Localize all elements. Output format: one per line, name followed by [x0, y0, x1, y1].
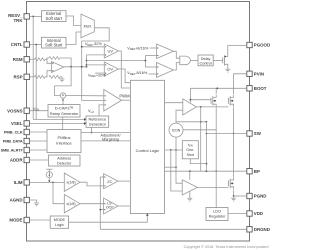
wire ILIM to lower amp: [53, 182, 64, 203]
wire PGOOD pin net: [228, 46, 247, 53]
wire VSEL into reference (arrow): [29, 122, 84, 124]
svg-text:Control: Control: [199, 61, 211, 65]
wire OV+: [87, 64, 105, 66]
wire CNTL to internal soft start: [29, 44, 41, 46]
svg-text:DRGND: DRGND: [254, 227, 270, 232]
wire int ss to mux: [66, 32, 81, 45]
svg-text:PVIN: PVIN: [254, 71, 264, 76]
wire ref gen bottom to margining bus: [91, 127, 93, 132]
mode logic box: [50, 216, 68, 228]
svg-text:x(1/8): x(1/8): [66, 181, 75, 185]
pin PMB_CLK: [24, 129, 29, 134]
wire gate boot fet from control: [190, 99, 211, 101]
wire VREF-8/16%: [149, 73, 157, 75]
wire ADDR: [29, 159, 48, 161]
wire and to delay: [190, 59, 198, 61]
delay control box: [198, 55, 213, 66]
wire LS fet drain: [233, 134, 235, 177]
wire summing to ramp box: [62, 98, 64, 104]
wire CNTL down: [35, 45, 37, 120]
wire PGND net: [234, 195, 247, 197]
svg-text:MODE: MODE: [54, 218, 66, 222]
external soft start box: [42, 11, 67, 22]
wire LDO to VDD: [228, 213, 247, 215]
wire fb to window comp inputs: [144, 56, 146, 68]
wire UV out to control logic: [119, 51, 131, 88]
wire lower amp out to OCP: [80, 203, 104, 205]
pin VOSNS: [24, 108, 29, 113]
pin BP: [247, 169, 252, 174]
PMBus interface box: [47, 130, 81, 153]
wire xcon down to ton wire: [176, 137, 182, 183]
resistor RSM input: [29, 58, 34, 60]
wire ramp box to PMBus: [62, 117, 64, 130]
ls driver ground: [189, 191, 191, 196]
comparator PG upper: [157, 44, 174, 59]
svg-text:Shot: Shot: [187, 153, 194, 157]
svg-text:SW: SW: [254, 131, 262, 136]
svg-text:Detector: Detector: [57, 161, 72, 165]
wire margining bus upper: [81, 132, 130, 134]
mux M1: [81, 14, 94, 38]
ground pgnd: [233, 196, 235, 198]
ton one-shot box: [182, 141, 198, 159]
wire ls driver input: [165, 166, 177, 168]
svg-text:ZC: ZC: [107, 180, 112, 184]
comparator UV: [104, 44, 118, 58]
svg-text:ILIM: ILIM: [14, 180, 23, 185]
svg-text:Interface: Interface: [56, 141, 72, 146]
svg-text:One-: One-: [186, 148, 195, 152]
svg-text:BOOT: BOOT: [254, 86, 267, 91]
LDO regulator box: [206, 208, 228, 221]
wire upper amp out to ZC: [80, 182, 104, 186]
comparator ZC: [104, 174, 118, 189]
svg-text:SMB_ALRT#: SMB_ALRT#: [1, 149, 24, 153]
wire RESV_TRK to external soft start: [29, 15, 41, 17]
D-CAP3 ramp generator box: [48, 105, 80, 117]
resistor RSP input: [29, 76, 34, 78]
and gate G1: [180, 56, 191, 65]
hs driver: [183, 99, 197, 115]
svg-text:TRK: TRK: [13, 18, 23, 23]
wire fb bus to window comparators: [87, 60, 146, 62]
ground pgood fet: [227, 67, 229, 69]
XCON circle: [169, 123, 183, 137]
wire ZC out: [118, 180, 130, 182]
svg-text:PMB_DATA: PMB_DATA: [3, 140, 23, 144]
op-amp U1 diff amp: [52, 62, 64, 73]
pin ADDR: [24, 157, 29, 162]
pin CNTL: [24, 42, 29, 47]
pin MODE: [24, 217, 29, 222]
svg-text:Copyright © 2016, Texas Instru: Copyright © 2016, Texas Instruments Inco…: [184, 245, 269, 249]
transistor PGOOD pulldown: [222, 57, 224, 63]
wire window comps to and gate: [174, 51, 180, 58]
wire BP net: [165, 170, 247, 172]
wire mode logic to control logic (arrow): [69, 216, 148, 223]
svg-text:tON: tON: [188, 143, 193, 148]
wire PMB_CLK: [29, 131, 47, 133]
wire OV out to control logic: [119, 69, 131, 83]
svg-text:PWM: PWM: [119, 93, 130, 98]
wire MODE pin: [29, 219, 50, 221]
svg-text:Logic: Logic: [55, 223, 64, 227]
svg-text:CNTL: CNTL: [11, 42, 23, 47]
wire ls fet source to PGND: [233, 190, 235, 196]
svg-text:OCP: OCP: [106, 206, 114, 210]
svg-text:Delay: Delay: [201, 57, 211, 61]
svg-text:PGND: PGND: [254, 194, 267, 199]
pin BOOT: [247, 86, 252, 91]
address detector box: [49, 155, 81, 166]
svg-text:UV: UV: [108, 49, 114, 54]
pin RSP: [24, 74, 29, 79]
wire VOSNS to ramp: [29, 110, 48, 112]
comparator OV: [104, 62, 118, 76]
wire hs driver out to gate: [196, 106, 228, 108]
svg-text:Margining: Margining: [102, 137, 119, 141]
control logic box: [130, 80, 164, 213]
svg-text:RSP: RSP: [13, 74, 22, 79]
current source I1: [46, 168, 52, 170]
wire VREF-32% to UV: [82, 46, 105, 48]
internal soft start box: [42, 37, 67, 48]
wire diff amp output: [64, 66, 87, 68]
svg-text:RSM: RSM: [13, 57, 23, 62]
ground ref resistor: [60, 76, 62, 78]
svg-text:AGND: AGND: [10, 198, 23, 203]
reference generator box: [86, 116, 109, 127]
resistor feedback top: [49, 57, 60, 60]
svg-text:PMBus: PMBus: [58, 135, 71, 140]
chip outline: [27, 2, 250, 242]
wire hs driver input: [165, 102, 183, 104]
wire SMB_ALRT: [29, 149, 47, 151]
svg-text:Control Logic: Control Logic: [136, 148, 160, 153]
pin RSM: [24, 57, 29, 62]
wire xcon right to boot source: [183, 129, 216, 131]
wire ext ss to mux: [66, 16, 81, 26]
wire summing to PWM+: [66, 95, 104, 97]
svg-text:Reference: Reference: [89, 118, 107, 122]
wire sense vertical: [99, 177, 101, 229]
transistor LS fet: [227, 180, 229, 186]
pin PVIN: [247, 71, 252, 76]
wire RESV_TRK down to reference: [32, 16, 34, 119]
wire BOOT net: [190, 87, 246, 89]
svg-text:OV: OV: [107, 67, 113, 72]
wire output feedback to summing: [55, 67, 72, 96]
svg-text:Soft Start: Soft Start: [45, 43, 63, 48]
pin ILIM: [24, 180, 29, 185]
wire bp down to LDO: [215, 171, 217, 207]
wire right bus down to BP: [205, 122, 207, 171]
wire boot to hs driver bias: [189, 88, 191, 102]
svg-text:Generator: Generator: [89, 123, 107, 127]
amp x(1/8) upper: [64, 173, 80, 191]
wire PVIN net: [234, 74, 247, 94]
wire control logic to ton: [165, 149, 183, 151]
pin RESV_: [24, 14, 29, 19]
svg-text:VDD: VDD: [254, 211, 263, 216]
svg-text:tCON: tCON: [172, 129, 181, 133]
wire ref to PWM-: [99, 105, 104, 116]
wire ls driver out to gate: [197, 186, 228, 188]
svg-text:VOSNS: VOSNS: [7, 108, 22, 113]
wire PWM output to control logic: [122, 99, 131, 101]
pin PMB_DATA: [24, 138, 29, 143]
pin VDD: [247, 211, 252, 216]
svg-text:VSEL: VSEL: [11, 121, 23, 126]
pin AGND: [24, 197, 29, 202]
svg-text:Soft start: Soft start: [46, 16, 63, 21]
wire hs driver out down: [200, 107, 202, 171]
wire mux output: [82, 28, 110, 101]
wire VREF+20% to OV: [95, 72, 104, 74]
pin SMB_ALRT#: [24, 147, 29, 152]
svg-text:LDO: LDO: [213, 210, 221, 214]
wire OCP out: [118, 205, 130, 207]
transistor boot switch: [210, 98, 212, 104]
wire ton bottom to bus: [190, 159, 206, 164]
svg-text:PGOOD: PGOOD: [254, 43, 270, 48]
svg-text:x(1/8): x(1/8): [66, 202, 75, 206]
wire boot fet source down to BP: [215, 108, 217, 172]
wire xcon right bus: [176, 121, 206, 123]
svg-text:PMB_CLK: PMB_CLK: [4, 130, 23, 135]
pin SW: [247, 131, 252, 136]
wire hs fet source to SW: [233, 108, 235, 134]
summing node S1: [60, 93, 65, 98]
transistor HS fet: [227, 98, 229, 104]
svg-text:Regulator: Regulator: [209, 215, 226, 219]
wire UV-: [87, 54, 105, 56]
svg-text:BP: BP: [254, 169, 260, 174]
wire fb up to UV- OV+: [86, 55, 88, 67]
pin PGND: [247, 193, 252, 198]
pin VSEL: [24, 121, 29, 126]
pin DRGND: [247, 227, 252, 232]
wire tracking into reference (arrow): [33, 118, 84, 120]
svg-text:MODE: MODE: [9, 218, 22, 223]
svg-text:Ramp Generator: Ramp Generator: [50, 112, 79, 116]
resistor RSP to ground: [49, 75, 60, 78]
comparator PWM: [104, 90, 122, 112]
wire SW net: [206, 133, 246, 135]
amp x(1/8) lower: [64, 195, 80, 213]
comparator PG lower: [157, 63, 174, 78]
svg-text:Address: Address: [57, 157, 71, 161]
wire VREF+8/16%: [150, 47, 157, 49]
wire PMB_DATA: [29, 140, 47, 142]
wire xcon up to hs driver: [176, 110, 183, 123]
wire delay to pgood fet gate: [213, 59, 223, 61]
wire DRGND sense net: [100, 228, 247, 230]
pin PGOOD: [247, 42, 252, 47]
svg-text:ADDR: ADDR: [10, 158, 24, 163]
svg-text:MUX: MUX: [84, 25, 93, 29]
wire bp to ls driver bias: [189, 171, 191, 180]
wire margining bus lower: [81, 140, 130, 142]
AGND ground: [29, 200, 36, 202]
wire boot fet drain: [215, 88, 217, 94]
comparator LS OCP: [104, 198, 118, 214]
wire ILIM: [29, 181, 64, 183]
ls driver: [182, 180, 197, 195]
